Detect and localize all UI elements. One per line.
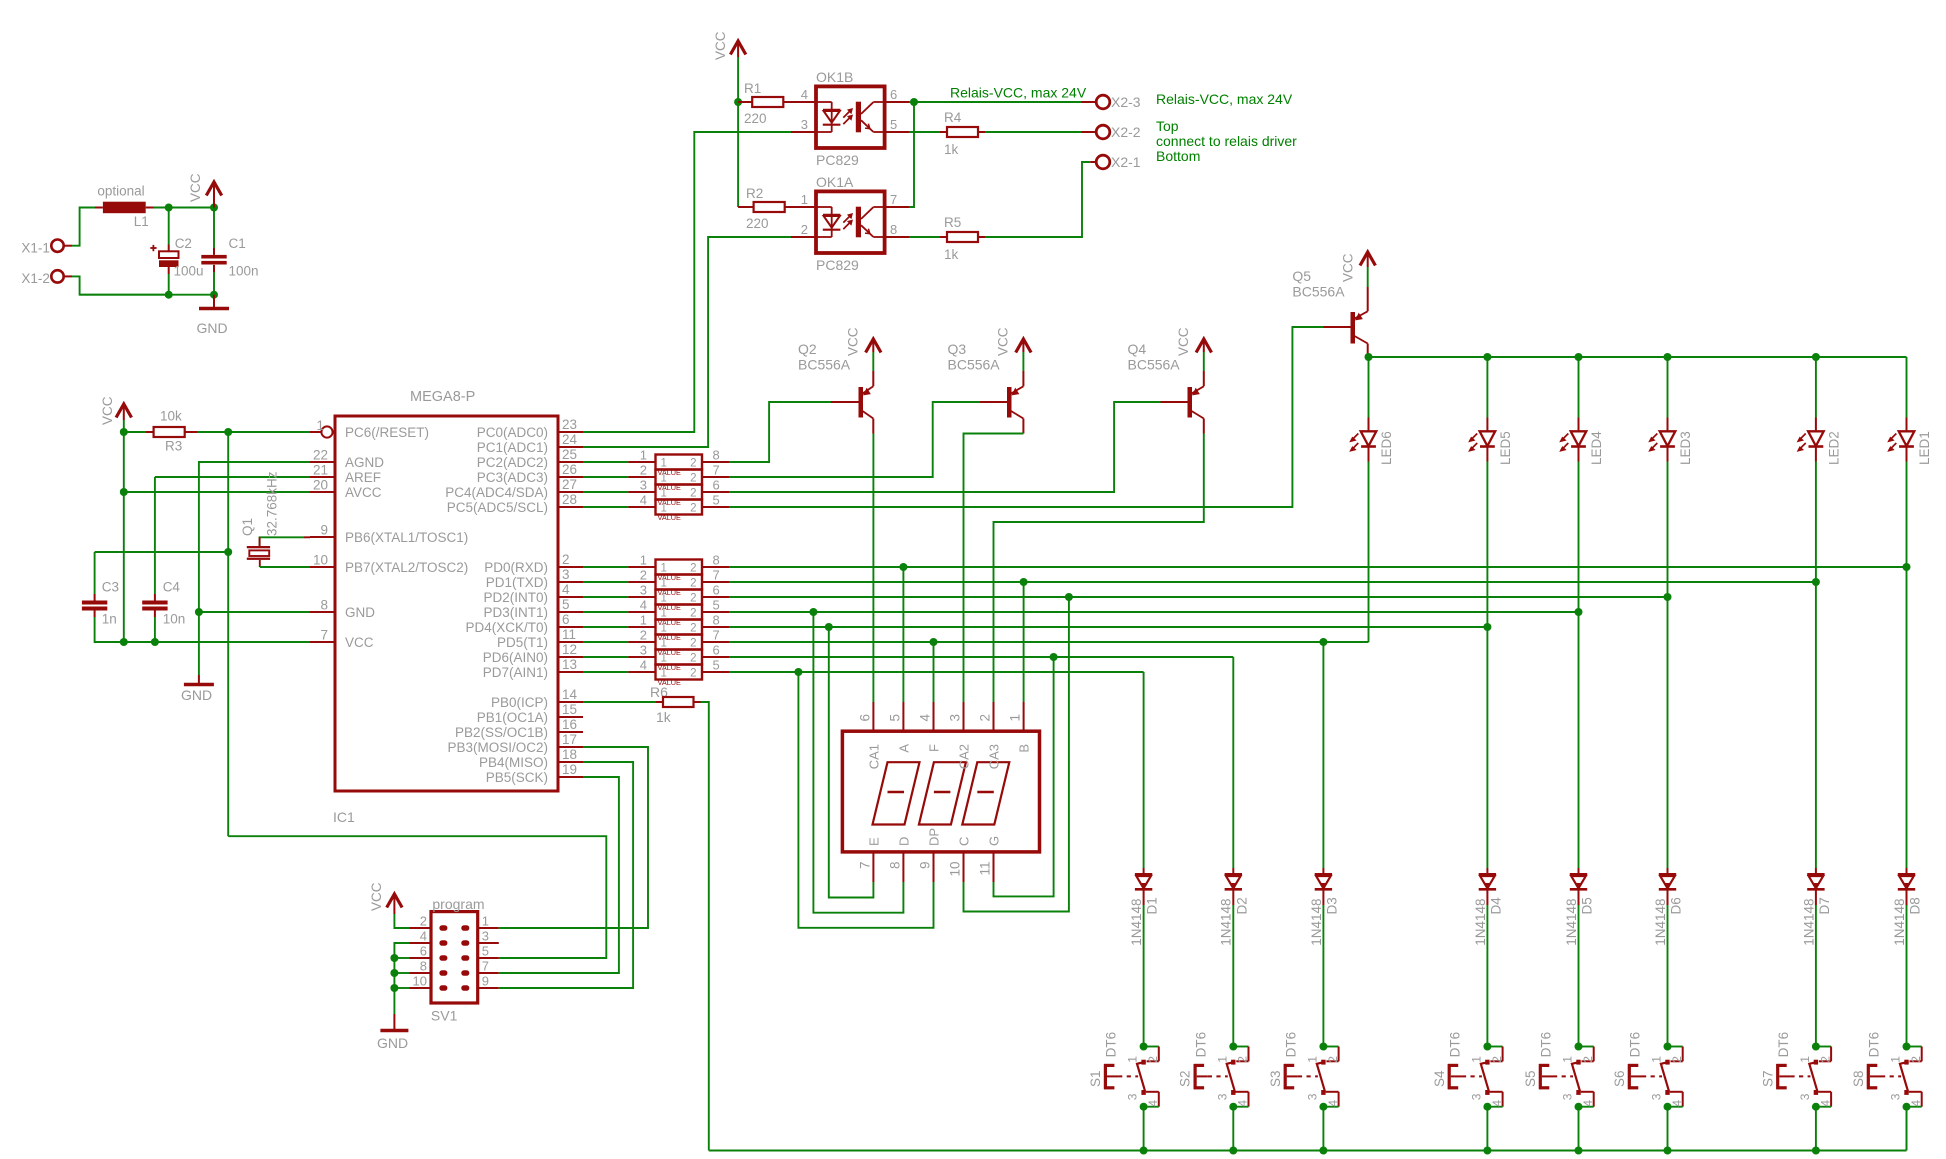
wire S6 to bus (1667, 1107, 1669, 1151)
diode D2 1N4148 (1219, 868, 1250, 946)
pin Q4 base stub (1161, 401, 1188, 403)
resistor array element (row 3-6) (583, 643, 729, 673)
wire AGND down (199, 462, 310, 675)
svg-text:DP: DP (927, 828, 942, 846)
svg-text:5: 5 (713, 598, 720, 613)
svg-text:9: 9 (482, 974, 489, 989)
wire C3 bottom to VCC rail (95, 617, 310, 642)
optocoupler OK1B PC829 (816, 69, 885, 168)
switch S4 DT6 (1432, 1032, 1504, 1111)
power symbol VCC (input) (188, 173, 222, 207)
pin 6 PD4(XCK/T0) (465, 612, 583, 635)
wire R6 to switch common bus (701, 702, 709, 1151)
svg-text:12: 12 (562, 642, 577, 657)
svg-text:2: 2 (690, 503, 696, 515)
power symbol VCC (opto) (713, 31, 746, 60)
node C1 top rail junction (210, 204, 218, 212)
pin 28 PC5(ADC5/SCL) (447, 492, 583, 515)
pin Q5 base stub (1324, 326, 1351, 328)
wire VCC vertical rail (123, 420, 125, 642)
node bus junction (1483, 1147, 1491, 1155)
svg-text:2: 2 (640, 463, 647, 478)
wire switch common bus (709, 1150, 1907, 1152)
svg-text:7: 7 (890, 192, 897, 207)
display pin 11 (G) bottom (978, 836, 1002, 882)
wire D4 to switch (1486, 905, 1488, 1047)
svg-text:2: 2 (1490, 1056, 1504, 1063)
wire segment net A (729, 566, 1907, 568)
power symbol VCC (Q2) (846, 327, 882, 356)
node bus junction (1812, 1147, 1820, 1155)
svg-text:2: 2 (690, 578, 696, 590)
svg-text:R4: R4 (944, 110, 962, 125)
resistor array element (row 1-8) (583, 613, 729, 643)
svg-text:Relais-VCC, max 24V: Relais-VCC, max 24V (950, 85, 1087, 101)
svg-text:4: 4 (420, 929, 427, 944)
svg-text:VCC: VCC (996, 327, 1011, 356)
svg-text:27: 27 (562, 477, 577, 492)
svg-text:25: 25 (562, 447, 577, 462)
optocoupler OK1A PC829 (816, 174, 885, 273)
wire bus up to S8 (1906, 1107, 1908, 1151)
svg-text:4: 4 (1581, 1100, 1595, 1107)
svg-text:2: 2 (640, 628, 647, 643)
svg-text:3: 3 (1798, 1093, 1812, 1100)
capacitor C1 100n (201, 208, 258, 279)
svg-text:Q4: Q4 (1128, 341, 1147, 357)
svg-text:7: 7 (857, 862, 872, 870)
svg-text:VCC: VCC (100, 396, 115, 425)
wire segment net DP (729, 671, 1144, 673)
svg-text:220: 220 (744, 111, 767, 126)
svg-text:LED2: LED2 (1826, 431, 1841, 465)
wire row to D3 (1322, 642, 1324, 868)
pin 1 PC6(/RESET) (310, 418, 429, 440)
svg-text:8: 8 (887, 862, 902, 870)
svg-text:BC556A: BC556A (1128, 357, 1181, 373)
node RESET junction (224, 428, 232, 436)
svg-text:C2: C2 (175, 236, 192, 251)
svg-text:B: B (1017, 744, 1032, 753)
power symbol VCC (Q3) (996, 327, 1032, 356)
svg-text:1: 1 (1889, 1056, 1903, 1063)
wire segment net G (729, 656, 1233, 658)
svg-text:2: 2 (1581, 1056, 1595, 1063)
node segment D junction (809, 608, 817, 616)
wire row to D6 (1667, 597, 1669, 868)
node segment DP junction (794, 668, 802, 676)
transistor Q2 BC556A (798, 341, 873, 434)
svg-text:Q2: Q2 (798, 341, 817, 357)
resistor R4 1k (910, 110, 985, 157)
svg-text:AVCC: AVCC (345, 485, 382, 500)
node row-column junction (1319, 638, 1327, 646)
diode D1 1N4148 (1129, 868, 1160, 946)
wire R3 to pin1 and SV1 (RESET net) (197, 431, 310, 433)
diode D4 1N4148 (1473, 868, 1504, 946)
svg-text:C1: C1 (229, 236, 246, 251)
switch S8 DT6 (1851, 1032, 1923, 1111)
svg-text:S7: S7 (1760, 1070, 1775, 1087)
node C2 bottom junction (165, 291, 173, 299)
node row-column junction (1903, 563, 1911, 571)
svg-text:PC829: PC829 (816, 257, 859, 273)
pin SV1-8 (409, 959, 431, 974)
svg-text:2: 2 (690, 668, 696, 680)
svg-text:Bottom: Bottom (1156, 148, 1200, 164)
wire RESET to SV1 pin5 (228, 836, 606, 958)
wire Q4 collector to display CA3 (994, 434, 1204, 703)
svg-text:PC5(ADC5/SCL): PC5(ADC5/SCL) (447, 500, 548, 515)
connector pad X1-1 (21, 240, 72, 256)
svg-text:PD2(INT0): PD2(INT0) (483, 590, 548, 605)
ground symbol GND (analog) (181, 675, 214, 703)
svg-text:10: 10 (948, 862, 963, 877)
svg-text:19: 19 (562, 762, 577, 777)
svg-text:OK1A: OK1A (816, 174, 854, 190)
svg-text:4: 4 (1236, 1100, 1250, 1107)
capacitor C3 1n (82, 552, 119, 627)
svg-text:PB5(SCK): PB5(SCK) (486, 770, 548, 785)
svg-text:DT6: DT6 (1867, 1032, 1882, 1058)
svg-text:18: 18 (562, 747, 577, 762)
svg-text:2: 2 (1236, 1056, 1250, 1063)
node opto output junction (910, 98, 918, 106)
svg-text:DT6: DT6 (1447, 1032, 1462, 1058)
pin header SV1 body (431, 896, 485, 1024)
pin 3 PD1(TXD) (486, 567, 583, 590)
wire segment E route (829, 627, 874, 898)
svg-text:26: 26 (562, 462, 577, 477)
svg-text:PD1(TXD): PD1(TXD) (486, 575, 548, 590)
ground symbol GND (input) (197, 295, 230, 336)
svg-text:4: 4 (801, 87, 808, 102)
pin 20 AVCC (310, 478, 382, 500)
svg-text:D7: D7 (1817, 897, 1832, 914)
pin SV1-4 (409, 929, 431, 944)
switch S7 DT6 (1760, 1032, 1832, 1111)
wire PB4 to SV1 pin9 (499, 762, 633, 988)
wire LED3 cathode (1667, 462, 1669, 598)
svg-text:PD4(XCK/T0): PD4(XCK/T0) (465, 620, 548, 635)
svg-text:BC556A: BC556A (1292, 284, 1345, 300)
svg-text:1: 1 (1469, 1056, 1483, 1063)
pin 24 PC1(ADC1) (477, 432, 583, 455)
switch S3 DT6 (1268, 1032, 1340, 1111)
svg-text:8: 8 (713, 613, 720, 628)
node bus junction (1319, 1147, 1327, 1155)
node row-column junction (1664, 593, 1672, 601)
svg-text:PC2(ADC2): PC2(ADC2) (477, 455, 548, 470)
svg-text:3: 3 (1215, 1093, 1229, 1100)
svg-text:4: 4 (1326, 1100, 1340, 1107)
svg-text:4: 4 (640, 493, 647, 508)
svg-text:D5: D5 (1580, 897, 1595, 914)
wire GND pin to AGND rail (199, 611, 310, 613)
svg-text:7: 7 (320, 628, 328, 643)
svg-text:13: 13 (562, 657, 577, 672)
LED LED4 (1560, 357, 1604, 465)
diode D3 1N4148 (1309, 868, 1340, 946)
wire segment D route (813, 612, 903, 913)
wire PC0 to OK1B pin3 (583, 132, 791, 432)
wire segment net B (729, 581, 1816, 583)
svg-text:Q3: Q3 (948, 341, 967, 357)
resistor array element (row 2-7) (583, 628, 729, 658)
svg-text:24: 24 (562, 432, 578, 447)
wire segment net F (729, 641, 1369, 643)
pin 12 PD6(AIN0) (483, 642, 583, 665)
pin 11 PD5(T1) (497, 627, 583, 650)
node C1 bottom junction (210, 291, 218, 299)
svg-text:21: 21 (313, 463, 328, 478)
wire segment F vertical (933, 642, 935, 702)
pin SV1-2 (409, 914, 431, 929)
pin 17 PB3(MOSI/OC2) (447, 732, 583, 755)
pin SV1-3 (478, 929, 499, 944)
svg-text:DT6: DT6 (1776, 1032, 1791, 1058)
svg-text:1: 1 (482, 914, 489, 929)
connector pad X2-2 (1082, 124, 1141, 140)
svg-text:G: G (987, 836, 1002, 846)
svg-text:16: 16 (562, 717, 577, 732)
svg-text:1: 1 (640, 448, 647, 463)
wire segment net D (729, 611, 1579, 613)
pin stubs OK1A (791, 192, 910, 237)
pin 4 PD2(INT0) (483, 582, 583, 605)
svg-text:2: 2 (690, 563, 696, 575)
svg-text:PD5(T1): PD5(T1) (497, 635, 548, 650)
svg-text:C: C (957, 837, 972, 846)
svg-text:VCC: VCC (1341, 253, 1356, 282)
svg-text:3: 3 (482, 929, 489, 944)
wire OK1A pin7 up (910, 102, 914, 207)
svg-text:D8: D8 (1908, 897, 1923, 914)
wire C4 bottom (154, 617, 156, 642)
svg-text:7: 7 (713, 628, 720, 643)
svg-text:DT6: DT6 (1628, 1032, 1643, 1058)
wire D3 to switch (1322, 905, 1324, 1047)
wire L1 to VCC rail (154, 207, 215, 209)
node bus junction (1575, 1147, 1583, 1155)
diode D7 1N4148 (1801, 868, 1832, 946)
wire LED2 cathode (1815, 462, 1817, 583)
pin SV1-6 (409, 944, 431, 959)
wire row to D7 (1815, 582, 1817, 868)
LED LED6 (1350, 357, 1394, 465)
resistor array element (row 1-8) (583, 553, 729, 583)
svg-text:2: 2 (690, 488, 696, 500)
wire LED1 cathode (1906, 462, 1908, 568)
svg-text:X2-1: X2-1 (1111, 154, 1141, 170)
LED LED2 (1798, 357, 1842, 465)
svg-text:2: 2 (1909, 1056, 1923, 1063)
display pin 5 (A) top (887, 702, 911, 753)
svg-text:PB6(XTAL1/TOSC1): PB6(XTAL1/TOSC1) (345, 530, 468, 545)
pin 15 PB1(OC1A) (477, 702, 583, 725)
wire LED6 cathode (1368, 462, 1370, 643)
svg-text:VCC: VCC (1176, 327, 1191, 356)
wire segment G route (994, 657, 1054, 896)
svg-text:CA3: CA3 (987, 744, 1002, 769)
wire RN1 out to Q4 base (729, 402, 1161, 492)
pin stubs OK1B (791, 87, 910, 132)
svg-text:3: 3 (640, 583, 647, 598)
svg-text:4: 4 (640, 658, 647, 673)
svg-text:17: 17 (562, 732, 577, 747)
svg-text:2: 2 (1670, 1056, 1684, 1063)
display pin 1 (B) top (1008, 702, 1032, 753)
svg-text:S6: S6 (1612, 1070, 1627, 1087)
svg-text:PC6(/RESET): PC6(/RESET) (345, 425, 429, 440)
svg-text:PB0(ICP): PB0(ICP) (491, 695, 548, 710)
svg-text:7: 7 (713, 568, 720, 583)
resistor array element (row 2-7) (583, 463, 729, 493)
svg-text:PB4(MISO): PB4(MISO) (479, 755, 548, 770)
resistor R6 1k (583, 697, 701, 725)
wire VCC to Q3 emitter (1022, 352, 1024, 371)
svg-text:15: 15 (562, 702, 577, 717)
connector pad X1-2 (21, 270, 72, 286)
svg-text:1N4148: 1N4148 (1653, 899, 1668, 946)
svg-text:2: 2 (1146, 1056, 1160, 1063)
resistor array element (row 4-5) (583, 658, 729, 688)
svg-text:Relais-VCC, max 24V: Relais-VCC, max 24V (1156, 91, 1293, 107)
wire row to D2 (1232, 657, 1234, 868)
svg-text:4: 4 (1909, 1100, 1923, 1107)
svg-text:2: 2 (690, 638, 696, 650)
svg-text:PB7(XTAL2/TOSC2): PB7(XTAL2/TOSC2) (345, 560, 468, 575)
svg-text:3: 3 (1126, 1093, 1140, 1100)
svg-text:6: 6 (890, 87, 897, 102)
pin 19 PB5(SCK) (486, 762, 583, 785)
wire LED5 cathode (1486, 462, 1488, 628)
svg-text:S8: S8 (1851, 1070, 1866, 1087)
node LED bus junction (1812, 353, 1820, 361)
svg-text:10n: 10n (163, 612, 186, 627)
wire row to D1 (1143, 672, 1145, 868)
node SV1 gnd junction 1 (390, 954, 398, 962)
ground symbol GND (SV1) (377, 1014, 408, 1051)
wire S2 to bus (1232, 1107, 1234, 1151)
wire segment A vertical (902, 567, 904, 702)
svg-text:8: 8 (890, 222, 897, 237)
pin 25 PC2(ADC2) (477, 447, 583, 470)
svg-text:GND: GND (377, 1035, 408, 1051)
diode D5 1N4148 (1564, 868, 1595, 946)
display pin 4 (F) top (918, 702, 942, 752)
svg-text:1: 1 (1305, 1056, 1319, 1063)
svg-text:program: program (432, 896, 484, 912)
wire S8 to bus (1906, 1107, 1908, 1151)
wire row to D4 (1486, 627, 1488, 868)
svg-text:1N4148: 1N4148 (1801, 899, 1816, 946)
svg-text:PB1(OC1A): PB1(OC1A) (477, 710, 548, 725)
svg-text:2: 2 (640, 568, 647, 583)
svg-text:3: 3 (801, 117, 808, 132)
wire D7 to switch (1815, 905, 1817, 1047)
svg-text:7: 7 (482, 959, 489, 974)
wire RN1 out to Q2 base (729, 402, 831, 462)
node GND junction (195, 608, 203, 616)
svg-text:Top: Top (1156, 118, 1179, 134)
svg-text:5: 5 (887, 714, 902, 722)
wire R5 to X2-1 (985, 162, 1090, 237)
connector pad X2-3 (1082, 94, 1141, 110)
svg-text:1N4148: 1N4148 (1564, 899, 1579, 946)
LED LED5 (1469, 357, 1513, 465)
wire VCC to Q2 emitter (872, 352, 874, 371)
diode D8 1N4148 (1892, 868, 1923, 946)
svg-text:11: 11 (978, 862, 993, 876)
svg-text:100u: 100u (174, 263, 204, 278)
svg-text:2: 2 (420, 914, 427, 929)
wire D2 to switch (1232, 905, 1234, 1047)
wire SV1 ground pins (394, 943, 409, 1014)
svg-text:2: 2 (690, 473, 696, 485)
svg-text:CA2: CA2 (957, 744, 972, 769)
svg-text:PC4(ADC4/SDA): PC4(ADC4/SDA) (445, 485, 548, 500)
svg-text:LED4: LED4 (1589, 431, 1604, 465)
svg-text:2: 2 (690, 608, 696, 620)
wire AVCC to VCC rail (124, 491, 310, 493)
svg-text:S3: S3 (1268, 1070, 1283, 1087)
wire C1 bottom (213, 272, 215, 295)
node segment C junction (1065, 593, 1073, 601)
pin 26 PC3(ADC3) (477, 462, 583, 485)
svg-text:3: 3 (1650, 1093, 1664, 1100)
svg-text:LED3: LED3 (1678, 431, 1693, 465)
resistor array element (row 4-5) (583, 598, 729, 628)
display pin 3 (CA2) top (948, 702, 972, 769)
power symbol VCC (Q5) (1341, 252, 1376, 282)
svg-text:6: 6 (857, 714, 872, 722)
wire crystal to PB7 (260, 566, 310, 568)
svg-text:1k: 1k (656, 709, 672, 725)
svg-text:E: E (866, 837, 881, 846)
svg-text:1N4148: 1N4148 (1219, 899, 1234, 946)
svg-text:optional: optional (97, 184, 144, 199)
svg-text:R2: R2 (746, 186, 763, 201)
pin SV1-1 (478, 914, 499, 929)
svg-text:1N4148: 1N4148 (1129, 899, 1144, 946)
svg-text:X1-1: X1-1 (21, 240, 50, 255)
node C2 top rail junction (165, 204, 173, 212)
svg-text:1: 1 (1798, 1056, 1812, 1063)
svg-text:S1: S1 (1088, 1070, 1103, 1087)
wire S7 to bus (1815, 1107, 1817, 1151)
svg-text:D3: D3 (1324, 897, 1339, 914)
node LED bus junction (1575, 353, 1583, 361)
display pin 2 (CA3) top (978, 702, 1002, 769)
wire OK1B pin6 to X2-3 (910, 101, 1082, 103)
power symbol VCC (Q4) (1176, 327, 1212, 356)
svg-text:32.768kHz: 32.768kHz (265, 471, 280, 536)
svg-text:2: 2 (978, 714, 993, 722)
wire R4 to X2-2 (985, 131, 1082, 133)
wire D1 to switch (1143, 905, 1145, 1047)
svg-text:3: 3 (640, 643, 647, 658)
crystal Q1 32.768kHz (240, 471, 310, 567)
svg-text:MEGA8-P: MEGA8-P (410, 389, 475, 405)
wire RESET to C3 rail (95, 551, 229, 553)
svg-text:X2-3: X2-3 (1111, 94, 1141, 110)
svg-text:2: 2 (690, 593, 696, 605)
node segment B junction (1020, 578, 1028, 586)
svg-text:1k: 1k (944, 247, 959, 262)
wire segment C route (964, 597, 1069, 912)
node segment E junction (825, 623, 833, 631)
